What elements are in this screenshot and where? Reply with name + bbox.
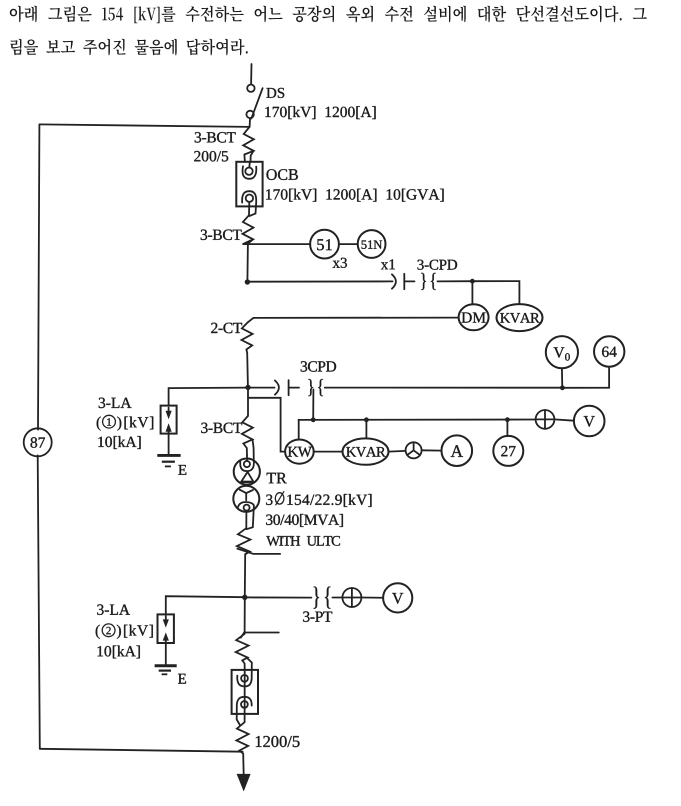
label 3-BCT (third)	[201, 423, 242, 434]
ULTC tap lead	[237, 549, 280, 554]
node: junction main/3-LA/3CPD	[245, 385, 250, 390]
wire: fuse to V	[554, 419, 574, 420]
ammeter selector switch	[406, 442, 422, 458]
wire: branch to 3-LA(2)	[166, 596, 245, 614]
wire: junction to 3CPD	[248, 387, 275, 389]
wire: KW stem	[298, 420, 300, 440]
wire: CT tail to TR bushing	[253, 439, 254, 461]
label 2-CT	[211, 323, 242, 334]
fuse symbol (crossed circle) on metering bus	[536, 410, 555, 429]
wire: CPD secondary drop	[312, 390, 314, 420]
wire: DS to 3-BCT	[249, 119, 251, 127]
label (1)[kV]	[97, 415, 154, 430]
wire: metering bus	[299, 419, 536, 421]
relay V0	[546, 336, 578, 368]
wire: KVAR to selector	[389, 450, 406, 453]
label 10[kA] (2)	[98, 646, 140, 659]
wire: zigzag to OCB main	[251, 151, 254, 162]
node: junction main/3-LA(2)/3-PT	[242, 595, 247, 600]
label DS	[266, 88, 284, 98]
label DS rating 170[kV] 1200[A]	[265, 106, 375, 119]
wire: branch to 3-LA(1)	[169, 388, 248, 406]
wire: junction to KVAR elbow	[472, 281, 519, 304]
wire: LA(2) to earth	[165, 643, 167, 665]
transformer TR	[233, 456, 260, 529]
relay 64	[594, 336, 624, 366]
circuit breaker OCB (upper)	[236, 162, 262, 216]
meter KW	[285, 440, 314, 464]
label 1200/5	[256, 736, 300, 747]
wire: fuse to V (lower)	[361, 597, 383, 599]
ULTC tap winding zigzag	[237, 528, 251, 554]
wire: junction down to DM	[471, 281, 473, 304]
wire: KW to KVAR	[314, 451, 343, 453]
wire: 27 stem	[506, 420, 508, 437]
node: junction main/3-CPD	[245, 279, 250, 284]
disconnect switch DS	[246, 85, 262, 119]
label 3-PT	[303, 611, 332, 622]
label OCB rating 170[kV] 1200[A] 10[GVA]	[266, 189, 443, 202]
wire: main line to first junction	[247, 239, 253, 282]
problem text line 2	[10, 39, 248, 56]
fuse symbol (crossed circle) at 3-PT	[342, 588, 361, 607]
label TR	[267, 473, 287, 484]
wire: 3-PT to fuse	[332, 597, 342, 599]
relay 51N	[358, 230, 386, 258]
label 3-LA (1)	[99, 398, 132, 409]
node: junction V0	[560, 385, 565, 390]
relay 87 (differential)	[24, 428, 52, 456]
label x1	[381, 259, 395, 269]
circuit breaker (lower)	[232, 659, 258, 726]
wire: CT secondary to relay 51	[243, 243, 310, 245]
wire: LA(1) to earth	[168, 434, 170, 455]
wire: junction down	[244, 597, 246, 633]
label 3CPD	[301, 361, 336, 372]
ground E (LA1)	[157, 455, 186, 474]
label 200/5	[194, 151, 228, 162]
meter V (lower)	[383, 583, 412, 612]
CT 3-BCT zigzag (third)	[242, 416, 253, 456]
wire: junction to 3-PT	[245, 596, 312, 598]
wire: junction to 64 elbow	[562, 367, 609, 388]
wire: differential loop left vertical (upper)	[38, 124, 39, 429]
meter KVAR (upper)	[497, 304, 543, 331]
wire: TR to lower junction	[244, 554, 246, 595]
problem text line 1	[10, 6, 647, 24]
coupling capacitor 3CPD symbol (second)	[275, 379, 323, 396]
CT 3-BCT 200/5 zigzag	[243, 127, 254, 162]
CT 1200/5 zigzag	[236, 722, 248, 753]
arrowhead outgoing feeder	[237, 774, 251, 792]
label 30/40[MVA]	[266, 514, 343, 527]
meter DM	[459, 304, 489, 330]
label 3-BCT (top)	[195, 132, 236, 143]
label x3	[333, 258, 347, 268]
node: junction DM	[470, 279, 475, 284]
wire: CPD to DM/KVAR	[438, 280, 473, 282]
coupling capacitor 3-CPD symbol	[392, 273, 436, 290]
label WITH ULTC	[266, 536, 340, 546]
wire: 2-CT to junction	[246, 350, 248, 386]
secondary winding zigzag with tap	[236, 634, 249, 670]
wire: differential loop bottom	[40, 749, 243, 752]
label OCB	[267, 169, 298, 180]
wire: incoming service above DS	[250, 64, 252, 84]
label (2)[kV]	[96, 624, 153, 639]
label 3phi154/22.9[kV]	[266, 491, 371, 507]
node: junction KVAR	[364, 417, 369, 422]
wire: to 3-CPD	[247, 280, 392, 282]
wire: junction to 3-BCT third	[247, 388, 249, 416]
lightning arrester 3-LA(2)	[158, 614, 174, 643]
wire: outgoing feeder	[242, 754, 245, 776]
wire: 2-CT secondary to DM	[248, 318, 459, 323]
relay 51	[310, 230, 339, 259]
potential transformer 3-PT symbol	[314, 587, 331, 609]
secondary tap lead	[241, 633, 279, 638]
meter V (upper)	[574, 406, 605, 437]
wire: main to KW row	[248, 398, 285, 452]
meter A	[442, 435, 473, 466]
wire: selector to A	[422, 449, 442, 451]
node: junction 27	[505, 417, 510, 422]
label 3-BCT (second)	[201, 230, 242, 241]
ground E (LA2)	[155, 666, 186, 684]
wire: differential CT loop top	[39, 124, 248, 127]
relay 27	[493, 436, 523, 466]
meter KVAR (lower)	[343, 438, 389, 464]
CT 2-CT zigzag	[242, 322, 253, 349]
wire: KVAR stem	[365, 420, 367, 439]
wire: 3CPD to V0/64	[325, 387, 563, 389]
node: junction CPD drop	[311, 417, 316, 422]
CT 3-BCT zigzag (second)	[243, 215, 254, 244]
lightning arrester 3-LA(1)	[161, 406, 177, 434]
wire: V0 stem	[561, 368, 563, 388]
wire: differential loop left vertical (lower)	[38, 455, 40, 748]
wire: 51 to 51N	[339, 243, 358, 245]
label 3-LA (2)	[97, 604, 130, 615]
label 3-CPD	[418, 260, 458, 270]
label 10[kA] (1)	[98, 436, 140, 449]
